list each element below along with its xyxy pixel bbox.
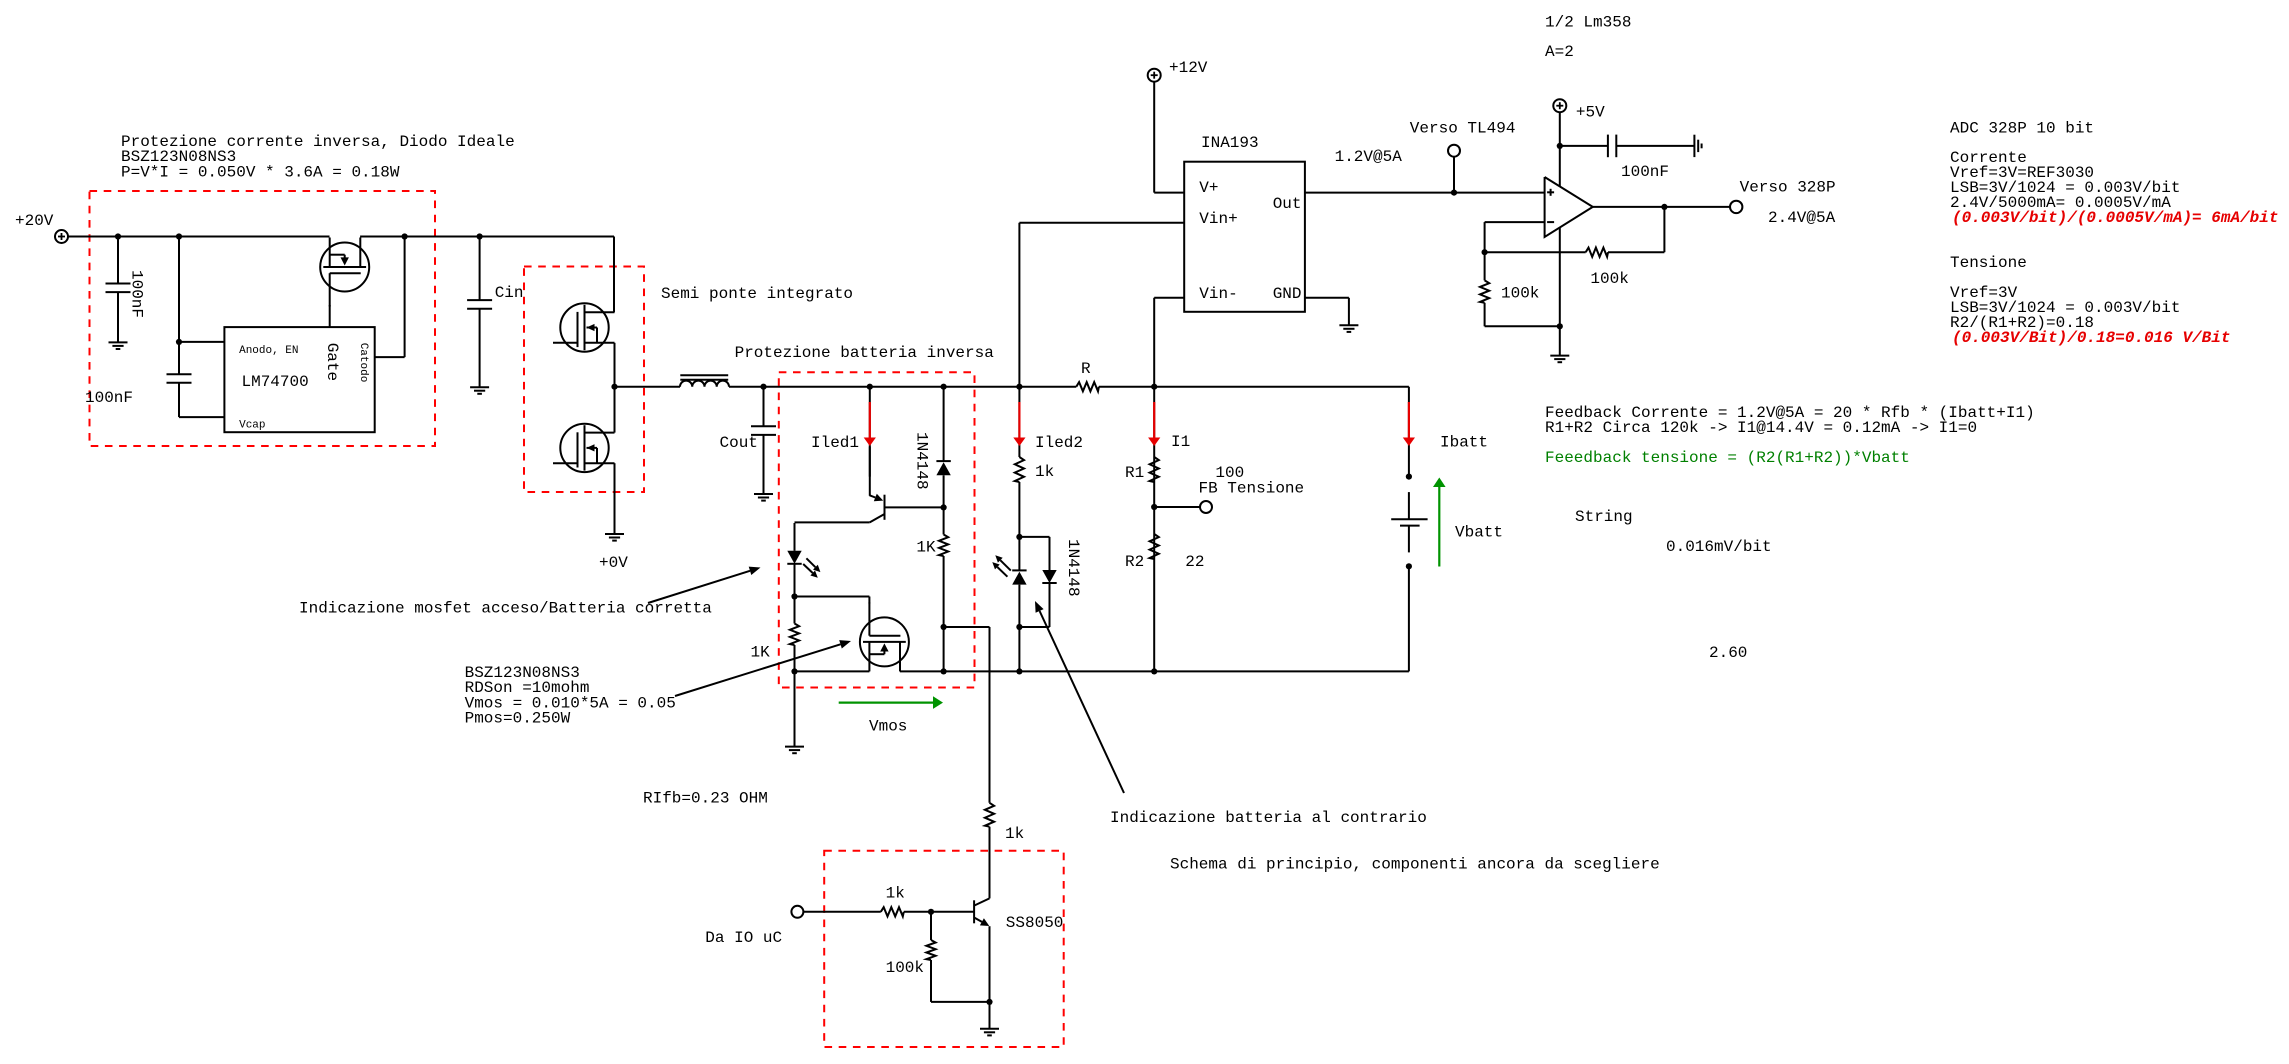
svg-text:SS8050: SS8050 bbox=[1006, 914, 1064, 932]
svg-text:Schema di principio, component: Schema di principio, componenti ancora d… bbox=[1170, 855, 1660, 873]
svg-text:1N4148: 1N4148 bbox=[1064, 539, 1082, 597]
svg-text:22: 22 bbox=[1185, 553, 1204, 571]
svg-text:100k: 100k bbox=[1590, 270, 1628, 288]
svg-text:Cin: Cin bbox=[495, 284, 524, 302]
svg-text:Pmos=0.250W: Pmos=0.250W bbox=[465, 709, 571, 727]
svg-text:Indicazione batteria al contra: Indicazione batteria al contrario bbox=[1110, 809, 1427, 827]
svg-text:Tensione: Tensione bbox=[1950, 254, 2027, 272]
svg-text:100k: 100k bbox=[1501, 285, 1539, 303]
svg-text:Da IO uC: Da IO uC bbox=[705, 929, 782, 947]
svg-text:1N4148: 1N4148 bbox=[913, 432, 931, 490]
svg-text:R1+R2 Circa 120k -> I1@14.4V =: R1+R2 Circa 120k -> I1@14.4V = 0.12mA ->… bbox=[1545, 419, 1977, 437]
svg-text:100k: 100k bbox=[886, 959, 924, 977]
svg-text:Vmos: Vmos bbox=[869, 717, 907, 735]
svg-text:Anodo, EN: Anodo, EN bbox=[239, 345, 298, 357]
svg-text:+5V: +5V bbox=[1576, 103, 1605, 121]
svg-text:Cout: Cout bbox=[720, 434, 758, 452]
svg-text:1k: 1k bbox=[1035, 463, 1054, 481]
svg-text:Feeedback tensione = (R2(R1+R2: Feeedback tensione = (R2(R1+R2))*Vbatt bbox=[1545, 449, 1910, 467]
svg-text:Indicazione mosfet acceso/Batt: Indicazione mosfet acceso/Batteria corre… bbox=[299, 599, 712, 617]
svg-text:Vbatt: Vbatt bbox=[1455, 523, 1503, 541]
svg-text:Ibatt: Ibatt bbox=[1440, 433, 1488, 451]
svg-text:1/2 Lm358: 1/2 Lm358 bbox=[1545, 14, 1631, 32]
svg-text:R1: R1 bbox=[1125, 464, 1144, 482]
svg-text:+0V: +0V bbox=[599, 554, 628, 572]
svg-text:Semi ponte integrato: Semi ponte integrato bbox=[661, 285, 853, 303]
svg-text:Catodo: Catodo bbox=[357, 343, 369, 383]
svg-text:INA193: INA193 bbox=[1201, 134, 1259, 152]
svg-text:Out: Out bbox=[1273, 195, 1302, 213]
svg-text:+20V: +20V bbox=[15, 212, 54, 230]
svg-text:RIfb=0.23 OHM: RIfb=0.23 OHM bbox=[643, 789, 768, 807]
svg-text:2.4V@5A: 2.4V@5A bbox=[1768, 209, 1836, 227]
svg-text:Protezione batteria inversa: Protezione batteria inversa bbox=[735, 344, 995, 362]
svg-text:100nF: 100nF bbox=[128, 270, 146, 318]
svg-text:(0.003V/bit)/(0.0005V/mA)= 6mA: (0.003V/bit)/(0.0005V/mA)= 6mA/bit bbox=[1952, 209, 2278, 227]
svg-text:100nF: 100nF bbox=[85, 389, 133, 407]
svg-text:Verso 328P: Verso 328P bbox=[1740, 179, 1836, 197]
svg-text:Vcap: Vcap bbox=[239, 420, 265, 432]
svg-text:1K: 1K bbox=[916, 539, 936, 557]
svg-text:Iled2: Iled2 bbox=[1035, 434, 1083, 452]
svg-text:+12V: +12V bbox=[1169, 59, 1208, 77]
svg-text:Iled1: Iled1 bbox=[811, 434, 859, 452]
svg-text:Vin+: Vin+ bbox=[1199, 210, 1237, 228]
svg-text:GND: GND bbox=[1273, 285, 1302, 303]
svg-text:ADC 328P 10 bit: ADC 328P 10 bit bbox=[1950, 119, 2094, 137]
svg-text:0.016mV/bit: 0.016mV/bit bbox=[1666, 538, 1772, 556]
svg-text:100nF: 100nF bbox=[1621, 163, 1669, 181]
svg-text:A=2: A=2 bbox=[1545, 43, 1574, 61]
svg-text:R: R bbox=[1081, 360, 1091, 378]
svg-text:1K: 1K bbox=[751, 644, 771, 662]
svg-text:Vin-: Vin- bbox=[1199, 285, 1237, 303]
svg-text:(0.003V/Bit)/0.18=0.016 V/Bit: (0.003V/Bit)/0.18=0.016 V/Bit bbox=[1952, 329, 2230, 347]
svg-text:R2: R2 bbox=[1125, 553, 1144, 571]
svg-text:FB Tensione: FB Tensione bbox=[1199, 479, 1305, 497]
svg-text:I1: I1 bbox=[1171, 433, 1190, 451]
svg-text:Verso TL494: Verso TL494 bbox=[1410, 120, 1516, 138]
svg-text:String: String bbox=[1575, 508, 1633, 526]
svg-text:LM74700: LM74700 bbox=[242, 373, 309, 391]
svg-text:V+: V+ bbox=[1199, 179, 1218, 197]
svg-text:1.2V@5A: 1.2V@5A bbox=[1335, 148, 1403, 166]
svg-text:1k: 1k bbox=[1005, 825, 1024, 843]
svg-text:1k: 1k bbox=[886, 884, 905, 902]
svg-text:P=V*I = 0.050V * 3.6A = 0.18W: P=V*I = 0.050V * 3.6A = 0.18W bbox=[121, 163, 400, 181]
svg-text:Gate: Gate bbox=[323, 343, 341, 381]
svg-text:2.60: 2.60 bbox=[1709, 644, 1747, 662]
